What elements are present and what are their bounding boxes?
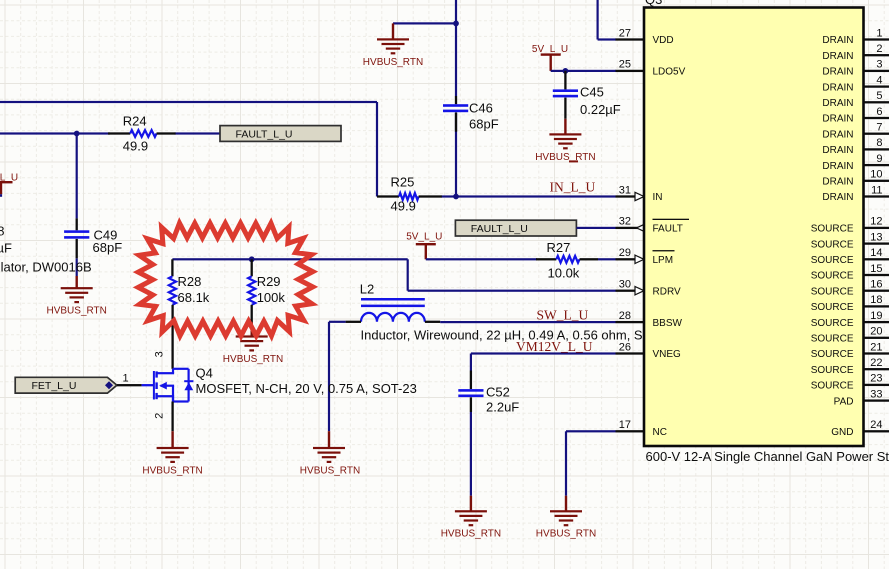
pin 15 SOURCE <box>864 274 889 276</box>
pin stub NC 17 <box>616 430 645 432</box>
svg-text:8: 8 <box>876 137 882 149</box>
wire gate <box>117 384 142 386</box>
svg-text:HVBUS_RTN: HVBUS_RTN <box>536 529 596 540</box>
pin 18 SOURCE <box>864 305 889 307</box>
ground HVBUS_RTN under Q4 <box>171 431 173 448</box>
pin 33 PAD <box>864 399 889 401</box>
svg-text:SOURCE: SOURCE <box>811 318 854 329</box>
svg-text:DRAIN: DRAIN <box>822 161 853 172</box>
port diamond <box>105 381 113 389</box>
wire 5V to R27 <box>426 258 537 260</box>
svg-text:18: 18 <box>870 294 882 306</box>
svg-text:RDRV: RDRV <box>653 286 681 297</box>
pin 16 SOURCE <box>864 290 889 292</box>
port FAULT_L_U right <box>455 220 576 236</box>
svg-text:27: 27 <box>619 27 631 39</box>
pin 22 SOURCE <box>864 368 889 370</box>
svg-text:15: 15 <box>870 263 882 275</box>
svg-text:FAULT: FAULT <box>653 224 683 235</box>
junction C45 tap <box>563 68 569 74</box>
svg-text:FET_L_U: FET_L_U <box>32 380 77 392</box>
svg-text:0.22µF: 0.22µF <box>580 102 621 117</box>
svg-text:25: 25 <box>619 59 631 71</box>
svg-text:23: 23 <box>870 373 882 385</box>
svg-text:20: 20 <box>870 326 882 338</box>
svg-text:SOURCE: SOURCE <box>811 334 854 345</box>
svg-text:R28: R28 <box>178 274 202 289</box>
svg-text:SOURCE: SOURCE <box>811 271 854 282</box>
pin 1 DRAIN <box>864 38 889 40</box>
svg-text:68pF: 68pF <box>93 240 123 255</box>
pin 13 SOURCE <box>864 242 889 244</box>
svg-text:SOURCE: SOURCE <box>811 381 854 392</box>
svg-text:Regulator, DW0016B: Regulator, DW0016B <box>0 260 92 275</box>
port FET_L_U <box>15 377 117 393</box>
pin 6 DRAIN <box>864 117 889 119</box>
svg-text:MOSFET, N-CH, 20 V, 0.75 A, SO: MOSFET, N-CH, 20 V, 0.75 A, SOT-23 <box>196 381 417 396</box>
svg-text:33: 33 <box>870 388 882 400</box>
svg-text:SW_L_U: SW_L_U <box>537 307 589 322</box>
ground HVBUS_RTN under C49 <box>76 276 78 288</box>
resistor R24 <box>108 132 130 134</box>
pin stub LDO5V 25 <box>616 70 645 72</box>
wire C46 vertical <box>455 0 457 96</box>
ground HVBUS_RTN top <box>392 23 394 39</box>
svg-text:49.9: 49.9 <box>391 199 416 214</box>
junction C46/top <box>453 21 459 27</box>
svg-text:GND: GND <box>831 427 853 438</box>
svg-text:12: 12 <box>870 216 882 228</box>
pin stub RDRV 30 <box>616 290 645 292</box>
svg-text:VDD: VDD <box>653 35 674 46</box>
ground HVBUS_RTN under R29 <box>251 322 253 337</box>
pin 3 DRAIN <box>864 70 889 72</box>
svg-text:FAULT_L_U: FAULT_L_U <box>471 223 528 235</box>
annotation red sketch ring <box>138 223 313 336</box>
wire FAULT net horizontal <box>0 132 110 134</box>
resistor R27 <box>536 258 556 260</box>
port FAULT_L_U left <box>220 126 341 142</box>
svg-text:R24: R24 <box>123 114 147 129</box>
svg-text:10.0k: 10.0k <box>548 265 580 280</box>
pin 24 GND <box>864 430 889 432</box>
svg-text:16: 16 <box>870 279 882 291</box>
svg-text:3: 3 <box>154 351 166 357</box>
capacitor C49 <box>76 218 78 230</box>
svg-text:DRAIN: DRAIN <box>822 35 853 46</box>
svg-text:32: 32 <box>619 216 631 228</box>
svg-text:22: 22 <box>870 357 882 369</box>
svg-text:DRAIN: DRAIN <box>822 82 853 93</box>
pin 7 DRAIN <box>864 133 889 135</box>
svg-text:600-V 12-A Single Channel GaN: 600-V 12-A Single Channel GaN Power Stag… <box>646 449 889 464</box>
svg-text:24: 24 <box>870 419 882 431</box>
pin stub IN 31 <box>616 195 645 197</box>
svg-text:IN_L_U: IN_L_U <box>550 180 596 195</box>
svg-text:Q3: Q3 <box>645 0 662 7</box>
wire VDD from top <box>597 0 599 40</box>
pin 8 DRAIN <box>864 148 889 150</box>
pin stub VDD 27 <box>616 38 645 40</box>
wire LDO5V <box>551 70 616 72</box>
svg-text:8: 8 <box>0 224 4 239</box>
svg-text:28: 28 <box>619 310 631 322</box>
ground HVBUS_RTN under C52 <box>470 496 472 512</box>
svg-text:SOURCE: SOURCE <box>811 239 854 250</box>
svg-text:DRAIN: DRAIN <box>822 67 853 78</box>
svg-text:VNEG: VNEG <box>653 349 682 360</box>
svg-text:HVBUS_RTN: HVBUS_RTN <box>47 306 107 317</box>
svg-text:5V_L_U: 5V_L_U <box>532 44 568 55</box>
pin 12 SOURCE <box>864 227 889 229</box>
pin 10 DRAIN <box>864 180 889 182</box>
pin 14 SOURCE <box>864 258 889 260</box>
svg-text:68pF: 68pF <box>469 116 499 131</box>
svg-text:5: 5 <box>876 90 882 102</box>
svg-text:SOURCE: SOURCE <box>811 302 854 313</box>
pin 23 SOURCE <box>864 384 889 386</box>
pin 21 SOURCE <box>864 352 889 354</box>
wire R25 row (IN net) <box>441 195 616 197</box>
wire VM12V to VNEG <box>471 352 616 354</box>
ground HVBUS_RTN under C45 <box>564 119 566 135</box>
svg-text:7: 7 <box>876 122 882 134</box>
svg-text:LDO5V: LDO5V <box>653 67 686 78</box>
wire C52 to ground <box>470 412 472 496</box>
svg-text:HVBUS_RTN: HVBUS_RTN <box>441 529 501 540</box>
svg-text:C45: C45 <box>580 84 604 99</box>
svg-text:31: 31 <box>619 184 631 196</box>
partial power bar left edge <box>0 181 13 183</box>
svg-text:SOURCE: SOURCE <box>811 365 854 376</box>
pin 4 DRAIN <box>864 85 889 87</box>
svg-text:DRAIN: DRAIN <box>822 129 853 140</box>
svg-text:IN: IN <box>653 192 663 203</box>
svg-text:13: 13 <box>870 231 882 243</box>
pin stub FAULT 32 <box>616 227 645 229</box>
wire divider net R28/R29 to RDRV <box>172 258 407 260</box>
svg-text:21: 21 <box>870 341 882 353</box>
svg-text:DRAIN: DRAIN <box>822 114 853 125</box>
wire to top ground <box>393 22 456 24</box>
svg-text:FAULT_L_U: FAULT_L_U <box>236 129 293 141</box>
svg-text:BBSW: BBSW <box>653 318 683 329</box>
svg-text:SOURCE: SOURCE <box>811 349 854 360</box>
svg-text:DRAIN: DRAIN <box>822 145 853 156</box>
svg-text:1: 1 <box>123 373 129 385</box>
wire FAULT to pin <box>577 227 616 229</box>
svg-text:R27: R27 <box>547 240 571 255</box>
pin 20 SOURCE <box>864 337 889 339</box>
svg-text:2: 2 <box>876 43 882 55</box>
capacitor C46 <box>455 96 457 104</box>
wire SW to BBSW <box>440 321 615 323</box>
svg-text:Inductor, Wirewound, 22 µH, 0.: Inductor, Wirewound, 22 µH, 0.49 A, 0.56… <box>361 327 643 342</box>
svg-text:L2: L2 <box>360 282 374 297</box>
svg-text:HVBUS_RTN: HVBUS_RTN <box>142 465 202 476</box>
svg-text:HVBUS_RTN: HVBUS_RTN <box>535 152 595 163</box>
svg-text:LPM: LPM <box>653 255 674 266</box>
svg-text:2.2uF: 2.2uF <box>486 400 519 415</box>
pin 19 SOURCE <box>864 321 889 323</box>
svg-text:C52: C52 <box>486 385 510 400</box>
pin stub BBSW 28 <box>616 321 645 323</box>
capacitor C45 <box>564 71 566 90</box>
Q4 source lead <box>171 402 173 432</box>
junction at C49 tap <box>74 131 80 137</box>
svg-text:29: 29 <box>619 247 631 259</box>
resistor R25 <box>377 195 399 197</box>
transistor Q4 <box>142 384 153 386</box>
svg-text:26: 26 <box>619 341 631 353</box>
svg-text:HVBUS_RTN: HVBUS_RTN <box>300 465 360 476</box>
junction R29 tap <box>249 256 255 262</box>
svg-text:100k: 100k <box>257 290 286 305</box>
svg-text:R29: R29 <box>257 274 281 289</box>
pin 9 DRAIN <box>864 164 889 166</box>
wire C49 branch <box>76 134 78 219</box>
svg-text:6: 6 <box>876 106 882 118</box>
Q4 drain lead <box>172 368 174 370</box>
svg-text:68.1k: 68.1k <box>178 290 210 305</box>
svg-text:5V_L_U: 5V_L_U <box>406 232 442 243</box>
IC U/Q3 body <box>644 8 864 447</box>
pin stub VNEG 26 <box>616 352 645 354</box>
pin 11 DRAIN <box>864 195 889 197</box>
junction IN/C46 <box>453 194 459 200</box>
svg-text:49.9: 49.9 <box>123 139 148 154</box>
pin 5 DRAIN <box>864 101 889 103</box>
capacitor C52 <box>470 371 472 390</box>
svg-text:SOURCE: SOURCE <box>811 286 854 297</box>
svg-text:PAD: PAD <box>834 396 854 407</box>
svg-text:1: 1 <box>876 27 882 39</box>
wire NC to ground <box>566 430 616 432</box>
svg-text:Q4: Q4 <box>196 366 213 381</box>
resistor R29 <box>251 259 253 276</box>
svg-text:14: 14 <box>870 247 882 259</box>
svg-text:VM12V_L_U: VM12V_L_U <box>516 339 593 354</box>
svg-text:2: 2 <box>154 413 166 419</box>
svg-text:4: 4 <box>876 74 882 86</box>
ground HVBUS_RTN under L2 <box>328 431 330 448</box>
svg-text:19: 19 <box>870 310 882 322</box>
ground HVBUS_RTN under NC <box>565 496 567 512</box>
svg-text:SOURCE: SOURCE <box>811 255 854 266</box>
svg-text:HVBUS_RTN: HVBUS_RTN <box>363 57 423 68</box>
svg-text:30: 30 <box>619 279 631 291</box>
svg-text:3: 3 <box>876 59 882 71</box>
wire top horizontal net to R25 <box>0 101 377 103</box>
resistor R28 <box>171 259 173 276</box>
pin 2 DRAIN <box>864 54 889 56</box>
svg-text:HVBUS_RTN: HVBUS_RTN <box>223 354 283 365</box>
pin stub LPM 29 <box>616 258 645 260</box>
svg-text:DRAIN: DRAIN <box>822 98 853 109</box>
svg-text:11: 11 <box>871 184 882 196</box>
svg-text:NC: NC <box>653 427 667 438</box>
svg-text:DRAIN: DRAIN <box>822 51 853 62</box>
svg-text:C46: C46 <box>469 100 493 115</box>
svg-text:10: 10 <box>870 169 882 181</box>
small red dash <box>569 160 578 162</box>
svg-text:DRAIN: DRAIN <box>822 177 853 188</box>
svg-text:µF: µF <box>0 240 12 255</box>
svg-text:DRAIN: DRAIN <box>822 192 853 203</box>
svg-text:17: 17 <box>619 419 631 431</box>
svg-text:R25: R25 <box>391 175 415 190</box>
svg-text:9: 9 <box>876 153 882 165</box>
wire L2 left to ground <box>329 321 346 323</box>
svg-text:SOURCE: SOURCE <box>811 224 854 235</box>
